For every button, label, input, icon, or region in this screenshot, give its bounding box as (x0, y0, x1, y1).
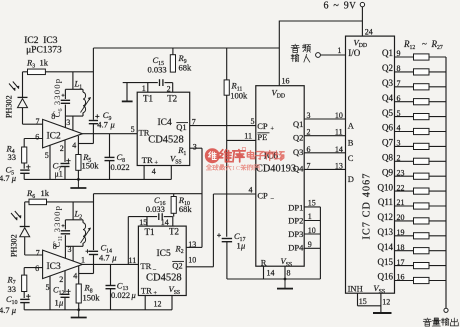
svg-text:DP4: DP4 (288, 242, 304, 252)
resistor R9 68k (170, 48, 192, 72)
wire DP4 pin9 (304, 240, 320, 249)
IC7 output Q4 with ladder resistor (382, 93, 446, 105)
svg-text:9: 9 (308, 240, 312, 249)
svg-text:12: 12 (154, 300, 162, 309)
svg-text:2: 2 (307, 128, 311, 137)
svg-text:3: 3 (307, 111, 311, 120)
wire DP1 pin15 (304, 199, 320, 208)
IC7 output Q10 with ladder resistor (378, 182, 447, 194)
wire pin6 IC3 (24, 264, 42, 273)
IC7 output Q5 with ladder resistor (382, 108, 446, 120)
svg-text:Q9: Q9 (382, 167, 393, 177)
ground for C15 left end (122, 83, 133, 102)
svg-text:IC7 CD 4067: IC7 CD 4067 (361, 172, 372, 239)
svg-text:μ: μ (240, 241, 245, 251)
analog multiplexer IC7 CD4067 (346, 36, 395, 295)
svg-text:I/O: I/O (348, 48, 360, 58)
svg-text:2: 2 (167, 84, 171, 93)
svg-text:CD4528: CD4528 (148, 135, 184, 146)
photodiode PH302 (lower) (10, 202, 30, 257)
svg-text:33: 33 (8, 284, 17, 294)
svg-text:Q4: Q4 (293, 164, 304, 174)
audio input terminal (291, 44, 345, 62)
capacitor C8 0.022 (105, 134, 130, 180)
svg-text:33: 33 (8, 152, 17, 162)
wire pin7 IC2 (23, 117, 43, 126)
wire supply rail middle section (94, 193, 203, 195)
photodiode PH302 (upper) (5, 72, 28, 124)
svg-text:150k: 150k (82, 161, 100, 171)
resistor R5 150k (76, 152, 99, 179)
svg-text:Q1: Q1 (382, 48, 393, 58)
IC7 output Q14 with ladder resistor (378, 242, 447, 254)
pin 3 stub IC3 (68, 245, 74, 261)
capacitor C7 on pin2 (53, 140, 71, 180)
svg-text:10: 10 (188, 256, 196, 265)
svg-text:16: 16 (282, 77, 290, 86)
svg-text:Q3: Q3 (293, 147, 303, 157)
svg-text:Q12: Q12 (378, 212, 394, 222)
ground symbol IC3 section (71, 310, 87, 318)
svg-text:7: 7 (307, 161, 311, 170)
svg-text:15: 15 (139, 218, 147, 227)
svg-text:T1: T1 (145, 227, 155, 237)
svg-text:~: ~ (422, 39, 427, 49)
svg-text:8: 8 (53, 242, 57, 251)
svg-text:2: 2 (60, 144, 64, 153)
svg-text:5: 5 (251, 117, 255, 126)
svg-text:1: 1 (337, 46, 341, 55)
IC7 output Q1 with ladder resistor (382, 48, 446, 60)
watermark text (206, 148, 284, 173)
svg-text:T1: T1 (143, 94, 153, 104)
svg-text:CP: CP (257, 121, 268, 131)
tank circuit L1 / C6 (upper) (52, 72, 91, 118)
svg-text:μ: μ (110, 119, 115, 129)
svg-text:Q16: Q16 (378, 272, 394, 282)
wire pin5 IC3 to ground (46, 276, 51, 310)
svg-text:IC3: IC3 (47, 262, 62, 272)
svg-text:Q11: Q11 (378, 197, 393, 207)
svg-text:I C: I C (232, 165, 240, 172)
svg-text:13: 13 (188, 240, 196, 249)
svg-text:1: 1 (81, 255, 85, 264)
pin 3 stub IC2 (66, 116, 73, 131)
capacitor C12 1u on pin2 (53, 271, 71, 310)
wire pin6 IC2 (24, 133, 42, 142)
svg-text:4: 4 (72, 141, 76, 150)
pin16 label of IC6 (282, 77, 290, 86)
svg-text:Q14: Q14 (378, 242, 394, 252)
svg-text:10: 10 (308, 226, 316, 235)
IC7 output Q12 with ladder resistor (378, 212, 447, 224)
svg-text:1: 1 (142, 84, 146, 93)
svg-text:6: 6 (307, 145, 311, 154)
wire supply branch to left at y=21 (279, 21, 362, 86)
svg-text:DP2: DP2 (288, 216, 303, 226)
svg-text:Q15: Q15 (378, 257, 394, 267)
svg-text:PH302: PH302 (10, 234, 19, 257)
wire R6 to supply drop lower (47, 201, 94, 203)
resistor R7 33 (7, 268, 27, 294)
svg-text:μ1: μ1 (55, 170, 63, 179)
timing network C16 and pins 15,14 of IC5 (128, 195, 173, 264)
svg-text:Q10: Q10 (378, 182, 394, 192)
svg-text:11: 11 (335, 128, 343, 137)
svg-text:4.7: 4.7 (97, 119, 108, 129)
svg-text:0.022: 0.022 (111, 162, 130, 172)
wire VDD supply from terminal to IC7 pin 24 (361, 7, 363, 36)
svg-text:8: 8 (51, 112, 55, 121)
svg-text:μ: μ (111, 252, 116, 262)
wire IC4 R1 pin3 down to IC5 pin13 (190, 142, 202, 247)
svg-text:1k: 1k (41, 188, 50, 198)
wire pin5 IC2 to ground (45, 145, 50, 179)
svg-text:3: 3 (68, 245, 72, 254)
svg-text:Q13: Q13 (378, 227, 394, 237)
svg-text:IC5: IC5 (157, 249, 172, 259)
wire DP3 pin10 (304, 226, 320, 235)
svg-text:Q4: Q4 (382, 93, 393, 103)
svg-text:4.7: 4.7 (99, 252, 110, 262)
svg-text:Q2: Q2 (382, 63, 393, 73)
svg-text:Q7: Q7 (382, 138, 393, 148)
svg-text:6: 6 (35, 264, 39, 273)
IC5 bottom pin12 / VSS U-wire (145, 296, 172, 310)
wire supply rail upper section (93, 47, 279, 49)
svg-text:TR: TR (140, 261, 151, 271)
resistor R11 100k with pull line (224, 48, 248, 237)
IC7 output Q13 with ladder resistor (378, 227, 447, 239)
svg-text:Q5: Q5 (382, 108, 393, 118)
wire IC6 Q4 to IC7 D (304, 161, 354, 183)
svg-text:12: 12 (382, 297, 390, 306)
IC7 output Q2 with ladder resistor (382, 63, 446, 75)
supply drop with capacitor C14 4.7u (86, 194, 117, 274)
op-amp IC3 (uPC1373 amp) (43, 250, 83, 279)
resistor R10 68k (171, 194, 192, 217)
svg-text:A: A (348, 121, 355, 131)
IC7 output Q16 with ladder resistor (378, 272, 447, 284)
watermark logo (205, 148, 220, 163)
wire DP2 pin1 (304, 212, 320, 221)
svg-text:Q3: Q3 (382, 78, 393, 88)
wire R3 to supply drop (45, 71, 93, 73)
svg-text:68k: 68k (179, 204, 193, 214)
svg-text:T2: T2 (167, 94, 177, 104)
svg-text:μ: μ (58, 298, 63, 308)
resistor R6 1k (26, 188, 50, 205)
wire IC3 output pin1 to IC5 TR- pin 11 (81, 255, 138, 265)
svg-text:8: 8 (287, 268, 291, 277)
resistor group label R12~R27 (403, 39, 443, 51)
timing network C15 and pins 1,2 of IC4 (123, 55, 173, 93)
ground symbol IC2 section (70, 179, 86, 188)
volume output label (423, 318, 458, 326)
pin24 label of IC7 (365, 27, 373, 36)
svg-text:6: 6 (35, 133, 39, 142)
IC7 output Q3 with ladder resistor (382, 78, 446, 90)
svg-text:C: C (348, 153, 354, 163)
svg-text:Q1: Q1 (176, 122, 186, 132)
IC7 INH/VSS ground wiring (358, 293, 392, 313)
svg-text:11: 11 (129, 256, 137, 265)
svg-text:3: 3 (193, 142, 197, 151)
DP preset bus to ground (319, 207, 321, 279)
IC7 output Q9 with ladder resistor (382, 167, 446, 179)
svg-text:5: 5 (45, 151, 49, 160)
wire pin7 IC3 (25, 249, 43, 258)
svg-text:IC4: IC4 (158, 118, 173, 128)
svg-text:100k: 100k (230, 90, 248, 100)
svg-text:B: B (348, 137, 354, 147)
part designator text IC2 IC3 uPC1373 (24, 36, 62, 55)
svg-text:7: 7 (192, 117, 196, 126)
svg-text:INH: INH (348, 283, 363, 293)
svg-text:14: 14 (267, 269, 275, 278)
IC7 output Q6 with ladder resistor (382, 123, 446, 135)
svg-text:PH302: PH302 (5, 95, 14, 118)
svg-text:15: 15 (359, 297, 367, 306)
svg-text:4.7: 4.7 (0, 173, 10, 183)
svg-text:2: 2 (59, 275, 63, 284)
IC7 output Q11 with ladder resistor (378, 197, 446, 209)
svg-text:5: 5 (131, 125, 135, 134)
svg-text:1k: 1k (40, 58, 49, 68)
pin 8 stub IC2 (51, 112, 65, 127)
svg-text:IC2: IC2 (47, 131, 62, 141)
svg-text:V: V (349, 1, 356, 11)
monostable IC4 CD4528 (137, 92, 190, 166)
svg-text:R: R (261, 257, 267, 267)
wire IC6 Q1 to IC7 A (304, 111, 355, 131)
svg-text:PE: PE (257, 132, 267, 142)
svg-text:6 ~ 9: 6 ~ 9 (324, 0, 350, 11)
svg-text:D: D (348, 174, 354, 184)
svg-text:Q2: Q2 (293, 133, 303, 143)
svg-text:μ: μ (131, 290, 136, 300)
svg-text:0.022: 0.022 (111, 290, 130, 300)
svg-text:15: 15 (308, 199, 316, 208)
svg-text:DP3: DP3 (288, 229, 303, 239)
ground rail IC3 section (24, 308, 172, 311)
svg-text:4: 4 (152, 167, 156, 176)
IC7 output Q8 with ladder resistor (382, 153, 446, 165)
svg-text:CD40193: CD40193 (256, 163, 296, 174)
svg-text:14: 14 (335, 145, 343, 154)
svg-text:μPC1373: μPC1373 (26, 45, 62, 55)
svg-text:Q2: Q2 (172, 261, 182, 271)
resistor R3 1k (26, 58, 49, 75)
wire IC5 Q2 pin10 up to CP- of IC6 (186, 194, 256, 267)
svg-text:4: 4 (73, 271, 77, 280)
svg-text:Q6: Q6 (382, 123, 393, 133)
svg-text:150k: 150k (83, 293, 101, 303)
svg-text:11: 11 (244, 132, 252, 141)
svg-text:TR: TR (142, 155, 153, 165)
supply drop with capacitor C9 4.7u (89, 48, 115, 144)
power terminal 6~9V (324, 0, 365, 11)
resistor R4 33 (6, 139, 27, 164)
svg-text:10: 10 (335, 111, 343, 120)
svg-text:3: 3 (66, 118, 70, 127)
svg-text:4.7: 4.7 (0, 305, 10, 315)
IC4 bottom pin4 / VSS U-wire (144, 166, 171, 180)
capacitor C13 0.022u (106, 264, 136, 309)
svg-text:μ: μ (11, 305, 16, 315)
svg-text:Q1: Q1 (293, 119, 303, 129)
svg-text:DP1: DP1 (288, 202, 303, 212)
svg-text:13: 13 (335, 161, 343, 170)
svg-text:T2: T2 (169, 227, 179, 237)
svg-text:0.033: 0.033 (146, 204, 165, 214)
svg-text:7: 7 (36, 117, 40, 126)
resistor R8 150k (76, 283, 100, 310)
wire pin4 IC3 jog (73, 266, 93, 284)
svg-text:4: 4 (249, 186, 253, 195)
wire IC5 R2 pin13 to vertical (186, 240, 202, 249)
pin4 CP- label (249, 186, 253, 195)
wire IC2 output to IC4 TR- pin 5 (82, 125, 137, 134)
svg-text:0.033: 0.033 (148, 65, 167, 75)
svg-text:Q8: Q8 (382, 153, 393, 163)
counter IC6 CD40193 (256, 86, 304, 268)
IC7 output Q7 with ladder resistor (382, 138, 446, 150)
wire IC4 Q1 pin7 to IC6 CP+ pin5 (190, 117, 256, 127)
capacitor C17 1u (217, 231, 246, 279)
svg-text:TR: TR (141, 285, 152, 295)
svg-text:1: 1 (308, 212, 312, 221)
svg-text:5: 5 (46, 283, 50, 292)
IC7 output Q15 with ladder resistor (378, 257, 447, 269)
svg-text:7: 7 (36, 249, 40, 258)
svg-text:24: 24 (365, 27, 373, 36)
wire IC6 Q3 to IC7 C (304, 145, 354, 163)
ground symbol IC6 (277, 279, 293, 289)
monostable IC5 CD4528 (138, 226, 186, 297)
svg-text:68k: 68k (179, 62, 193, 72)
svg-text:μ: μ (11, 173, 16, 183)
wire PE pin11 of IC6 (227, 132, 256, 141)
capacitor C10 4.7u (0, 292, 31, 316)
tank circuit L2 / C11 (lower) (52, 202, 91, 248)
capacitor C5 4.7u (0, 163, 31, 183)
ground rail IC2 section (24, 178, 171, 181)
op-amp IC2 (uPC1373 amp) (43, 119, 83, 147)
svg-text:CP: CP (257, 190, 268, 200)
wire IC6 Q2 to IC7 B (304, 128, 354, 148)
svg-text:14: 14 (161, 218, 169, 227)
svg-text:CD4528: CD4528 (146, 273, 182, 284)
wire pin4 IC2 jog to supply drop (72, 136, 93, 155)
IC6 ground rail (227, 266, 321, 280)
volume output bus wire (444, 57, 448, 312)
pin 8 stub IC3 (53, 242, 66, 258)
